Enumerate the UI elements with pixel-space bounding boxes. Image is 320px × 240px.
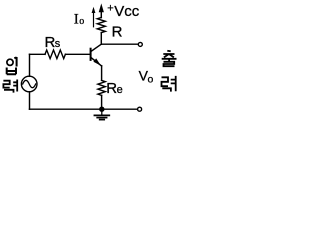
svg-text:Vcc: Vcc: [114, 3, 140, 20]
svg-text:+: +: [107, 3, 113, 15]
wire bottom rail: [30, 108, 138, 110]
svg-text:o: o: [148, 74, 154, 86]
+Vcc arrow head: [99, 3, 104, 12]
output terminal bottom circle: [138, 107, 142, 111]
wire source top lead: [29, 54, 31, 76]
wire collector node to R bottom: [100, 33, 102, 45]
svg-text:R: R: [112, 24, 123, 41]
resistor Rs: [45, 50, 65, 59]
wire top-left horizontal from source to Rs: [30, 53, 46, 55]
AC source V1 sine: [23, 80, 36, 87]
wire +Vcc arrow shaft: [100, 7, 102, 18]
transistor Q1 emitter arrow head: [93, 58, 101, 65]
resistor Re: [98, 80, 105, 95]
current arrow Io head: [92, 7, 96, 13]
transistor Q1 base bar: [90, 49, 92, 60]
label input hangul 'ip': [7, 57, 17, 74]
label output hangul 'ryeok': [162, 76, 176, 92]
svg-text:s: s: [55, 38, 61, 50]
ground bar 2: [97, 117, 106, 119]
svg-text:o: o: [79, 16, 84, 27]
ground stub: [101, 109, 103, 115]
svg-text:e: e: [117, 84, 123, 96]
label input hangul 'ryeok': [3, 80, 17, 93]
ground bar 3: [100, 119, 105, 121]
wire Rs to base: [65, 53, 89, 55]
wire emitter down to Re: [101, 66, 103, 81]
label output hangul 'chul': [162, 51, 177, 66]
AC source V1 circle: [21, 76, 37, 92]
transistor Q1 collector lead: [91, 44, 102, 51]
output terminal top circle: [138, 42, 142, 46]
ground bar 1: [94, 114, 109, 116]
junction dot emitter/bottom rail: [99, 107, 104, 112]
wire Re to bottom rail: [101, 95, 103, 109]
svg-text:I: I: [74, 11, 79, 27]
wire collector row to output terminal: [101, 43, 137, 45]
current arrow Io shaft: [93, 10, 95, 27]
resistor R: [97, 17, 105, 32]
wire source bottom lead: [29, 92, 31, 110]
transistor Q1 emitter lead: [91, 58, 102, 67]
